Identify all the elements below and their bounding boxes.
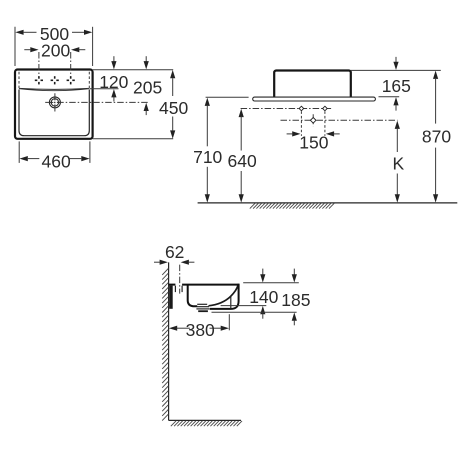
dimension K line and arrows (395, 121, 400, 203)
fixing hole left (diamond) (299, 106, 304, 111)
floor hatching (side view) (171, 421, 242, 426)
dimension 200 arrows (24, 47, 85, 52)
drain centre tick marks (50, 98, 60, 108)
tap hole right (plan view) (67, 76, 75, 84)
svg-text:380: 380 (186, 320, 215, 340)
tap hole left (plan view) (35, 76, 43, 84)
bowl front edge curve (19, 88, 89, 90)
dimension 140 upper arrow (260, 269, 265, 283)
dimension 450 line and arrows (170, 70, 175, 139)
dimension 185 upper arrow (292, 269, 297, 283)
tap hole axis centerline (side view) (179, 265, 181, 294)
basin rim (section) (169, 284, 239, 286)
wall line (168, 262, 170, 420)
dimension 460 extension lines (19, 141, 90, 163)
dimension 380 extension line (228, 314, 230, 330)
dimension 380 line and arrows (169, 326, 229, 331)
svg-text:62: 62 (165, 242, 184, 262)
drain outlet vertical centerline (312, 114, 314, 126)
dimension 62 arrows (154, 260, 194, 265)
dimension 640 line and arrows (239, 109, 244, 203)
drain outlet centerline (height K) (281, 119, 398, 121)
dimension 140 lower arrow (260, 306, 265, 319)
tap hole center (plan view) (51, 76, 59, 84)
svg-text:140: 140 (249, 287, 278, 307)
dimension 185 lower arrow (292, 313, 297, 326)
floor hatching (front view) (250, 203, 334, 208)
bowl rear wall and bottom (section) (188, 285, 198, 306)
drain trap bottom (section) (198, 310, 208, 312)
bottom edge extension line (93, 138, 174, 140)
basin top extension line (351, 69, 441, 71)
dimension 200 centerlines (to outer tap holes) (39, 52, 71, 77)
dimension 710 line and arrows (205, 98, 210, 203)
drain outer circle (49, 97, 60, 108)
svg-text:450: 450 (159, 98, 188, 118)
svg-text:640: 640 (227, 151, 256, 171)
dimension 120 upper arrow (111, 56, 116, 69)
hidden bowl side edges (dashed) (19, 72, 89, 88)
dimension 150 arrows (287, 131, 340, 136)
svg-text:460: 460 (41, 151, 70, 171)
countertop slab (253, 97, 376, 101)
drain inner circle (51, 99, 58, 106)
dimension 460 line and arrows (20, 156, 90, 161)
drain vertical centerline (54, 93, 56, 111)
drain outlet (diamond) (310, 118, 316, 124)
rim top extension line (243, 282, 299, 284)
dimension 205 lower arrow (144, 103, 149, 115)
basin foot edge (section) (230, 297, 232, 309)
dimension 165 upper arrow (393, 57, 398, 70)
floor line (front view) (198, 202, 458, 204)
svg-text:205: 205 (133, 77, 162, 97)
svg-text:165: 165 (382, 76, 411, 96)
basin outer shell right and bottom (section) (210, 284, 239, 309)
dimension 120 lower arrow (111, 89, 116, 101)
svg-text:K: K (393, 153, 405, 173)
floor line (side view) (169, 419, 241, 421)
dimension 165 lower arrow (393, 97, 398, 111)
inner bowl outline (plan view) (19, 90, 89, 136)
drain horizontal centerline extended to 205 dimension (45, 101, 148, 103)
svg-text:710: 710 (193, 147, 222, 167)
countertop level extension line left (206, 96, 249, 98)
basin body (front view) (274, 71, 351, 99)
wall hatching (162, 269, 168, 421)
basin outer rim (plan view) (15, 70, 93, 139)
dimension 150 extension lines (dashed) (301, 111, 325, 136)
svg-text:870: 870 (422, 127, 451, 147)
dimension 205 upper arrow (144, 56, 149, 69)
basin underside extension line (185) (212, 311, 297, 313)
fixing hole right (diamond) (323, 106, 328, 111)
svg-text:200: 200 (41, 41, 70, 61)
dimension 870 line and arrows (433, 71, 438, 203)
wall bracket (section, filled) (169, 286, 173, 309)
countertop level extension line right (379, 96, 400, 98)
svg-text:150: 150 (299, 133, 328, 153)
svg-text:185: 185 (281, 290, 310, 310)
bowl inner curve (section) (209, 285, 239, 306)
fixing holes centerline (241, 108, 332, 110)
drain trap lines (section) (196, 304, 209, 309)
tap hole bore (section) (175, 286, 182, 292)
dimension 500 extension lines (15, 27, 93, 66)
top edge extension line (93, 69, 174, 71)
bowl front edge extension line (90, 88, 119, 90)
bowl bottom extension line (140) (221, 305, 267, 307)
dimension 500 line and arrows (15, 30, 92, 35)
